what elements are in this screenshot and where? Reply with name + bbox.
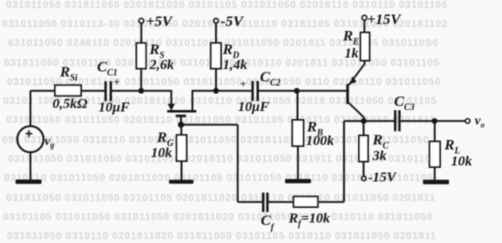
- svg-text:-5V: -5V: [221, 14, 245, 30]
- svg-text:RE: RE: [342, 29, 359, 47]
- svg-text:3k: 3k: [372, 149, 387, 164]
- svg-text:+: +: [240, 78, 246, 90]
- svg-text:1,4k: 1,4k: [223, 58, 248, 73]
- svg-text:10k: 10k: [451, 154, 472, 169]
- svg-text:+: +: [114, 77, 120, 89]
- svg-text:1k: 1k: [345, 47, 359, 62]
- svg-text:CC1: CC1: [97, 60, 118, 78]
- svg-text:0,5kΩ: 0,5kΩ: [53, 97, 89, 112]
- svg-text:RSi: RSi: [59, 65, 78, 83]
- svg-text:vo: vo: [475, 113, 485, 130]
- svg-text:10μF: 10μF: [238, 100, 270, 115]
- svg-text:10k: 10k: [151, 146, 172, 161]
- svg-text:-15V: -15V: [368, 171, 398, 186]
- svg-text:RL: RL: [444, 138, 461, 156]
- svg-text:CC2: CC2: [260, 70, 281, 88]
- svg-text:Rf=10k: Rf=10k: [288, 212, 330, 229]
- svg-text:10μF: 10μF: [99, 100, 131, 115]
- svg-text:+5V: +5V: [146, 14, 174, 30]
- svg-text:RC: RC: [372, 133, 390, 151]
- svg-text:vg: vg: [45, 133, 55, 150]
- svg-text:2,6k: 2,6k: [149, 58, 175, 73]
- svg-text:Cf: Cf: [261, 213, 275, 232]
- svg-text:CC3: CC3: [394, 94, 415, 112]
- svg-text:100k: 100k: [306, 134, 334, 149]
- svg-text:+15V: +15V: [367, 12, 403, 28]
